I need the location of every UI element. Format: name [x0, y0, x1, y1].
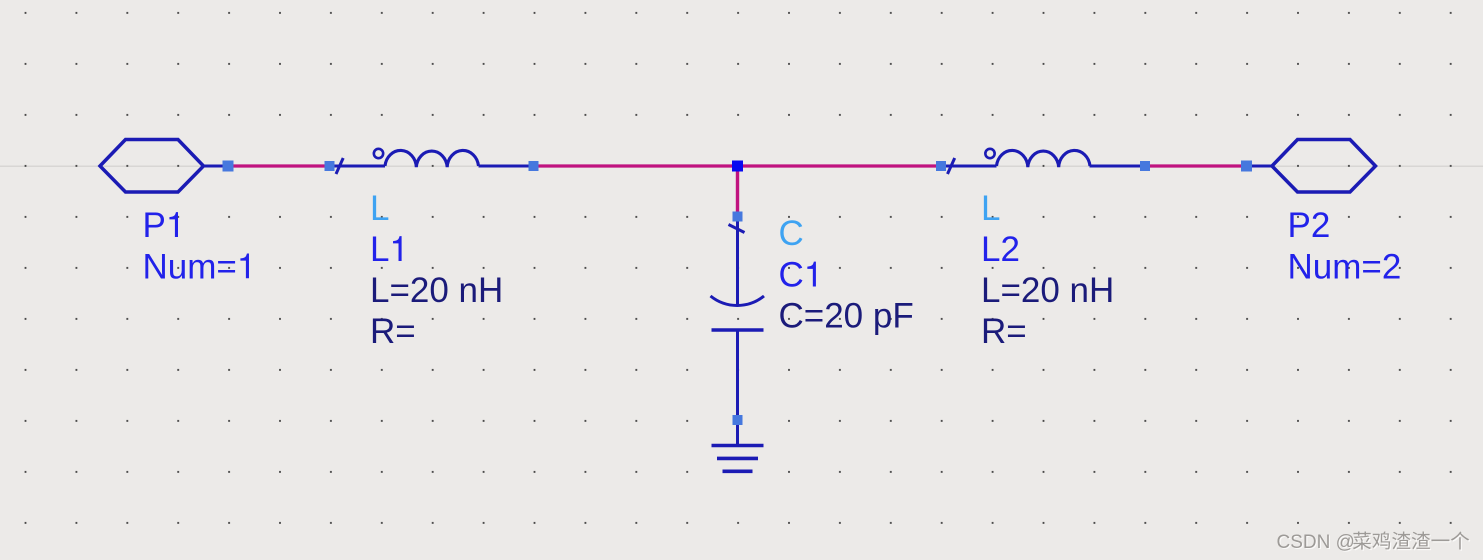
svg-text:L: L: [370, 189, 389, 228]
inductor L2: [941, 149, 1145, 174]
wire W5 (node N1 down to C1): [736, 166, 739, 217]
watermark: [1277, 531, 1471, 554]
pin 1 of C1: [733, 212, 743, 222]
pin of P2: [1241, 161, 1252, 172]
port P2: [1247, 140, 1376, 193]
svg-text:L=20 nH: L=20 nH: [981, 271, 1114, 310]
svg-text:C: C: [779, 256, 804, 295]
pin 1 of L2: [936, 161, 946, 171]
wire W1 (P1 to L1): [228, 164, 330, 167]
pin 2 of L2: [1140, 161, 1150, 171]
svg-text:P2: P2: [1288, 206, 1331, 245]
wire W4 (L2 to P2): [1145, 164, 1247, 167]
wire W2 (L1 to node N1): [534, 164, 738, 167]
junction node N1: [732, 161, 743, 172]
svg-text:R=: R=: [370, 312, 416, 351]
pin of P1: [223, 161, 234, 172]
svg-text:C=20 pF: C=20 pF: [779, 297, 914, 336]
svg-text:C: C: [779, 214, 804, 253]
svg-text:L: L: [981, 189, 1000, 228]
svg-text:L: L: [370, 230, 389, 269]
pin 2 of C1: [733, 415, 743, 425]
pin 1 of L1: [325, 161, 335, 171]
svg-text:P: P: [143, 206, 166, 245]
pin 2 of L1: [529, 161, 539, 171]
svg-text:CSDN @: CSDN @: [1277, 532, 1355, 553]
ground: [712, 446, 764, 472]
svg-text:Num=2: Num=2: [1288, 247, 1402, 286]
svg-text:L=20 nH: L=20 nH: [370, 271, 503, 310]
svg-text:L2: L2: [981, 230, 1020, 269]
capacitor C1: [711, 222, 765, 446]
port P1: [100, 140, 228, 193]
wire W3 (node N1 to L2): [738, 164, 942, 167]
inductor L1: [330, 149, 534, 174]
svg-text:R=: R=: [981, 312, 1027, 351]
svg-text:Num=: Num=: [143, 247, 237, 286]
